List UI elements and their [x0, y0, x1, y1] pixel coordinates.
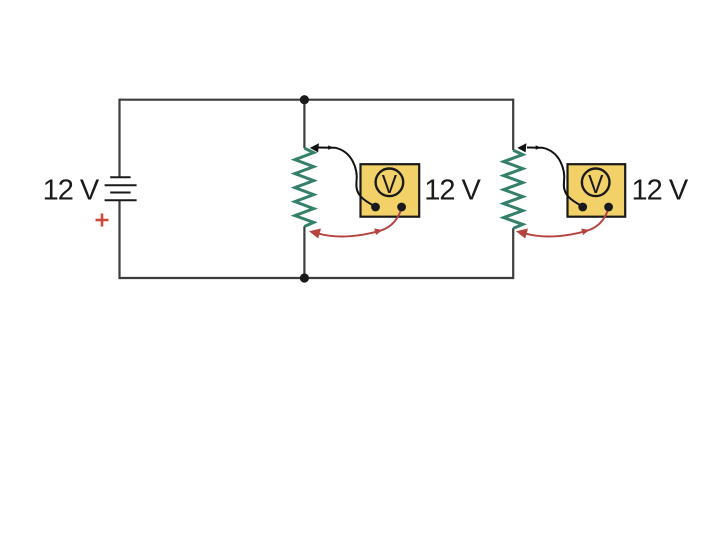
voltmeter U2 right terminal dot [604, 203, 613, 212]
svg-text:V: V [382, 171, 398, 200]
voltmeter U1 box [361, 164, 420, 217]
wire: middle branch upper [303, 100, 305, 149]
voltmeter U2 dial circle [582, 169, 610, 197]
wire: middle branch lower [303, 226, 305, 278]
svg-text:12 V: 12 V [632, 175, 689, 207]
svg-text:V: V [588, 171, 604, 200]
battery B1 plates [105, 177, 137, 200]
svg-text:12 V: 12 V [424, 175, 481, 207]
voltmeter U1 left terminal dot [371, 203, 380, 212]
probe lead: black arrow from U2 left terminal to R2 top [527, 148, 583, 207]
voltmeter U2 left terminal dot [578, 203, 587, 212]
resistor R2 (green zigzag, right branch) [504, 150, 523, 228]
node: bottom junction dot [300, 273, 309, 282]
voltmeter U1 right terminal dot [397, 203, 406, 212]
probe lead: red arrow from U2 right terminal to R2 bottom [525, 208, 609, 236]
wire: top horizontal [120, 99, 514, 101]
battery polarity + sign [96, 214, 109, 227]
wire: left vertical upper (top corner to battery top plate) [118, 99, 120, 178]
probe lead: red arrow from U1 right terminal to R1 bottom [318, 208, 402, 236]
svg-text:12 V: 12 V [43, 175, 100, 207]
node: top junction dot [300, 95, 309, 104]
probe lead: black arrow from U1 left terminal to R1 top [317, 148, 375, 207]
wire: right vertical lower [512, 228, 514, 279]
voltmeter U2 box [568, 164, 626, 217]
resistor R1 (green zigzag, middle branch) [295, 148, 314, 226]
wire: right vertical upper [512, 99, 514, 151]
wire: bottom horizontal [120, 277, 514, 279]
wire: left vertical lower (battery bottom plate to bottom corner) [118, 200, 120, 279]
voltmeter U1 dial circle [376, 169, 404, 197]
